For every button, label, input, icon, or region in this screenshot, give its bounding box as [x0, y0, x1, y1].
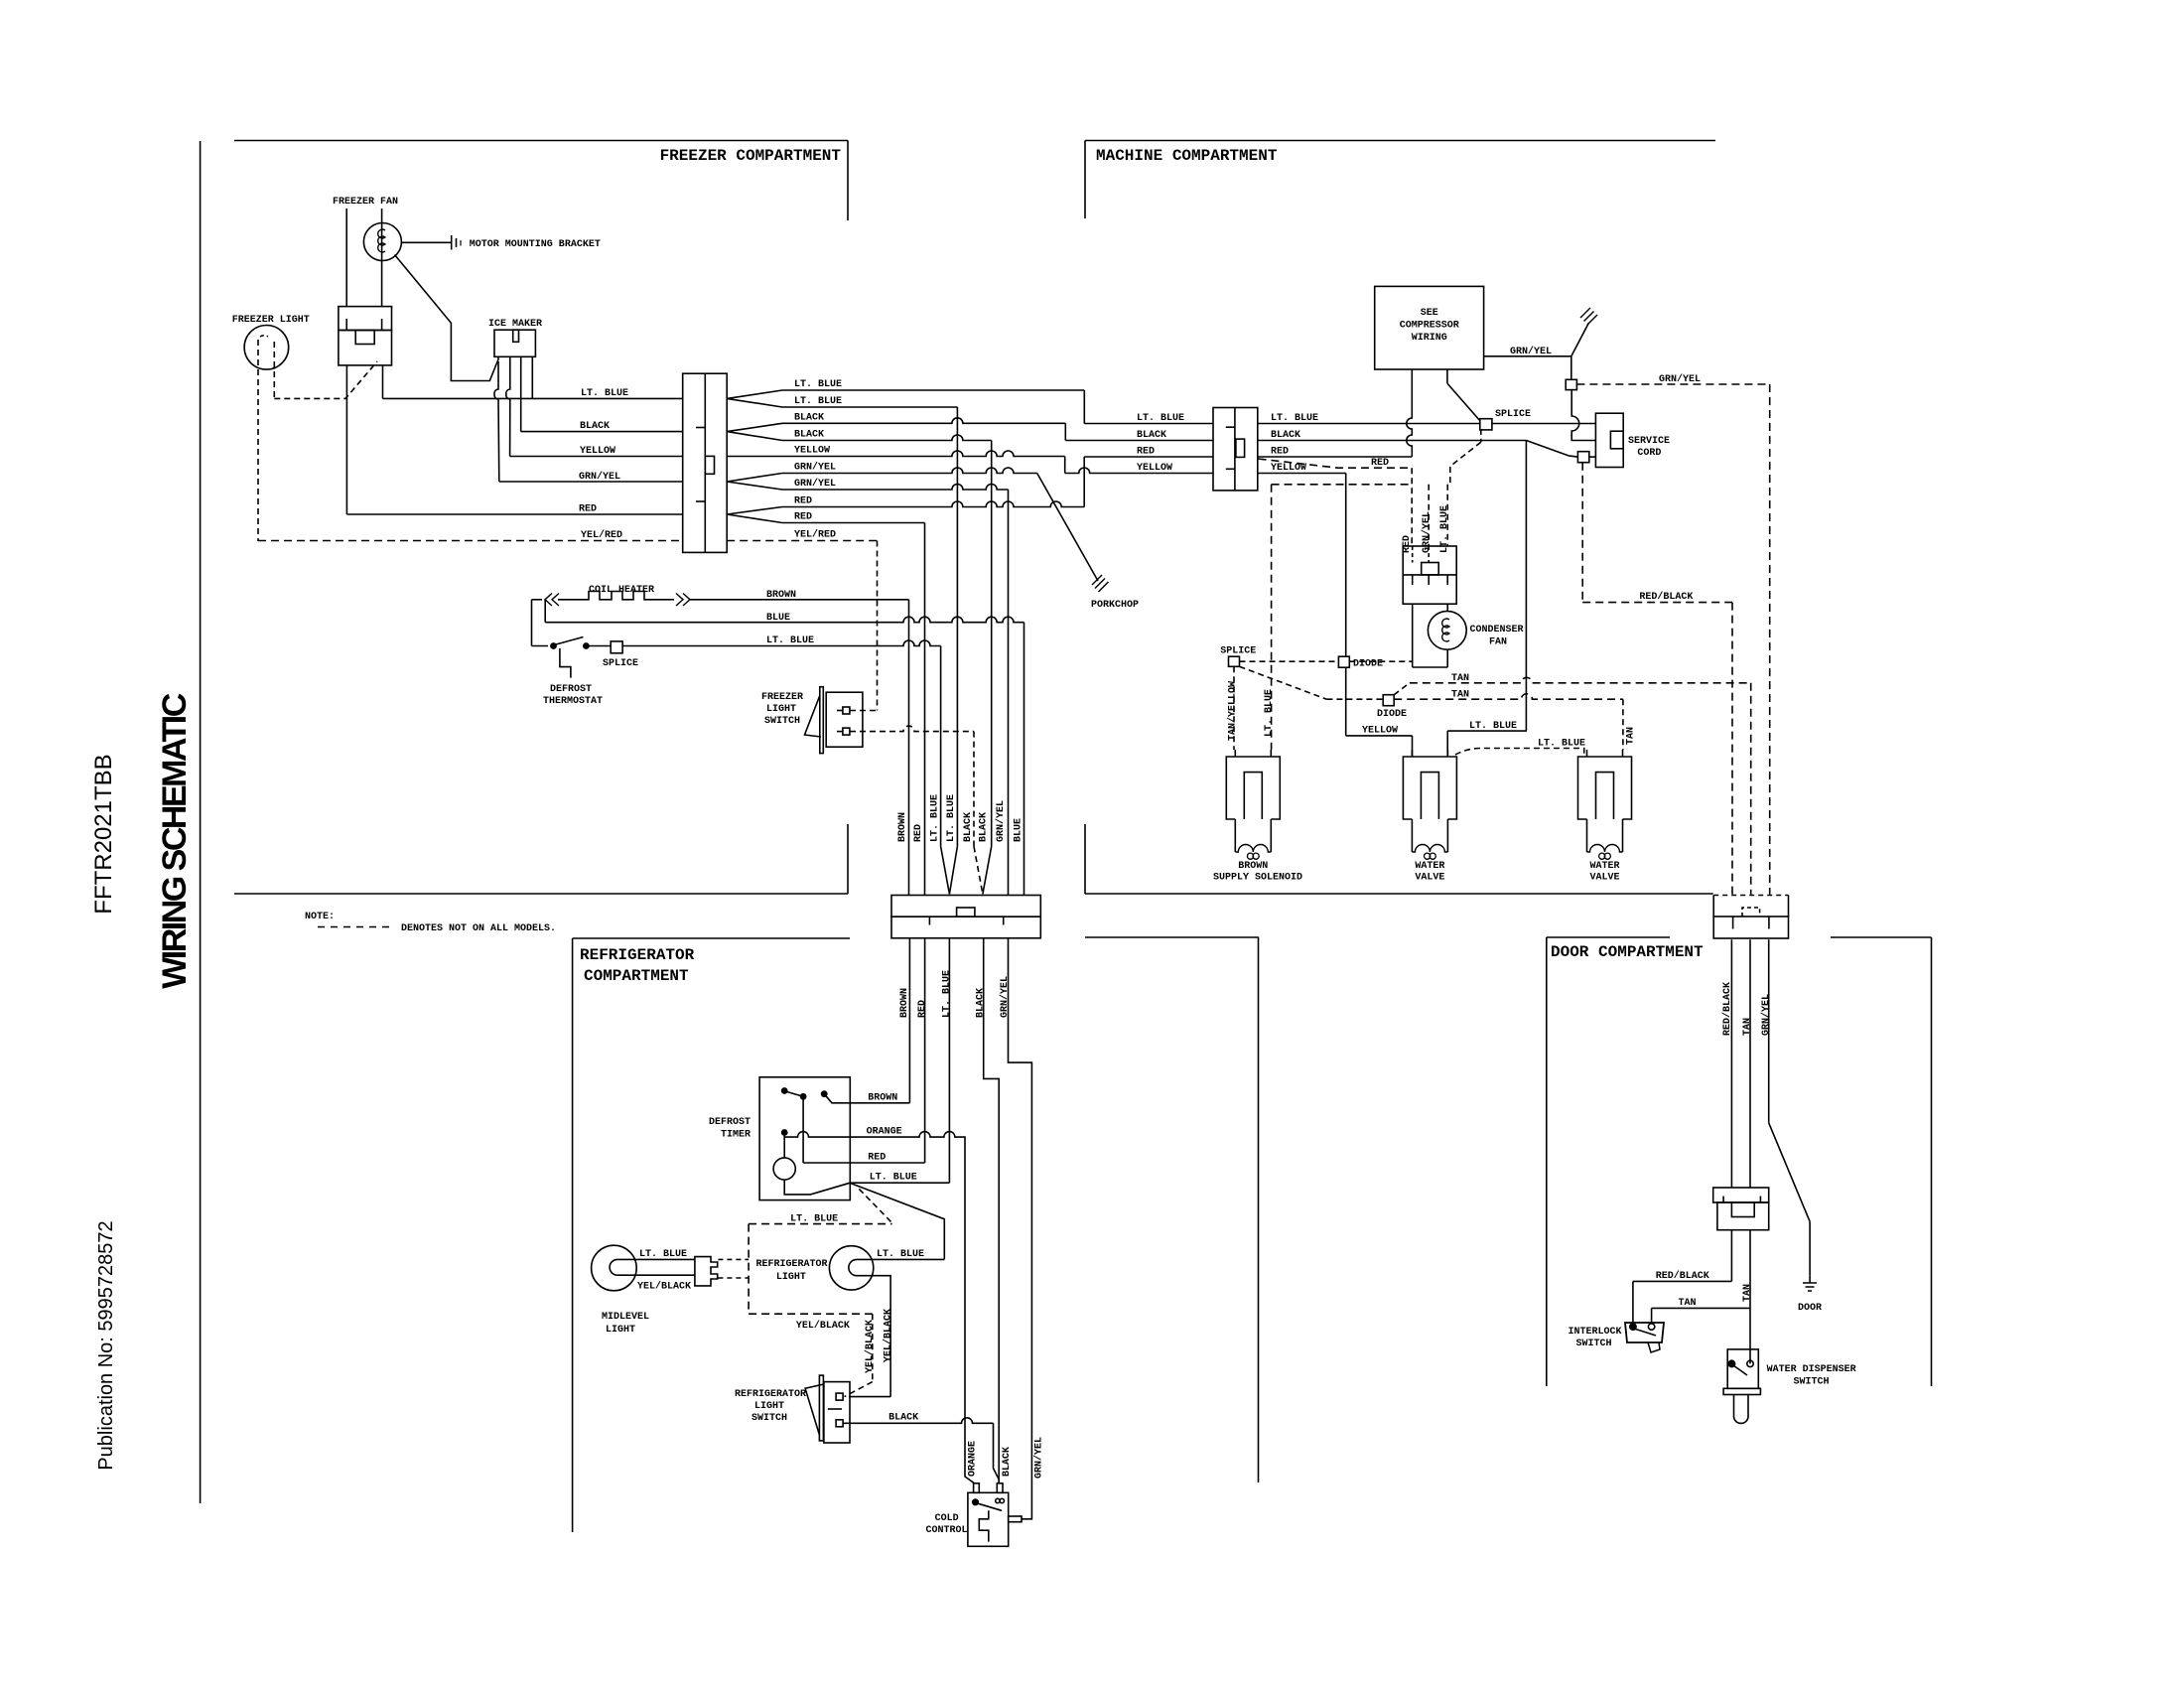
- svg-text:DEFROST: DEFROST: [550, 684, 592, 695]
- svg-text:RED: RED: [917, 1000, 928, 1018]
- svg-text:LT. BLUE: LT. BLUE: [766, 635, 814, 646]
- svg-text:FFTR2021TBB: FFTR2021TBB: [90, 754, 117, 914]
- svg-text:ORANGE: ORANGE: [968, 1441, 979, 1477]
- svg-text:LIGHT: LIGHT: [776, 1272, 806, 1283]
- svg-text:YELLOW: YELLOW: [794, 446, 830, 457]
- svg-text:INTERLOCK: INTERLOCK: [1568, 1327, 1621, 1338]
- svg-text:SWITCH: SWITCH: [751, 1413, 787, 1424]
- svg-text:RED: RED: [1271, 447, 1289, 458]
- svg-text:RED: RED: [913, 824, 924, 842]
- svg-text:LT. BLUE: LT. BLUE: [1271, 413, 1318, 424]
- svg-text:YEL/BLACK: YEL/BLACK: [864, 1320, 876, 1373]
- svg-text:RED: RED: [579, 504, 597, 515]
- svg-text:GRN/YEL: GRN/YEL: [1510, 346, 1552, 357]
- svg-text:FREEZER FAN: FREEZER FAN: [333, 197, 398, 208]
- svg-text:BLACK: BLACK: [794, 413, 824, 424]
- svg-text:YELLOW: YELLOW: [1362, 726, 1398, 737]
- svg-text:SPLICE: SPLICE: [603, 658, 638, 669]
- svg-text:COMPRESSOR: COMPRESSOR: [1400, 321, 1459, 332]
- svg-text:RED/BLACK: RED/BLACK: [1721, 982, 1733, 1036]
- svg-text:LIGHT: LIGHT: [766, 704, 796, 715]
- svg-text:BLACK: BLACK: [580, 421, 610, 432]
- svg-text:GRN/YEL: GRN/YEL: [794, 462, 836, 474]
- svg-text:LT. BLUE: LT. BLUE: [877, 1249, 924, 1260]
- svg-text:MACHINE COMPARTMENT: MACHINE COMPARTMENT: [1096, 147, 1278, 165]
- svg-text:LT. BLUE: LT. BLUE: [870, 1173, 917, 1184]
- svg-text:FREEZER: FREEZER: [761, 692, 803, 703]
- svg-text:REFRIGERATOR: REFRIGERATOR: [735, 1389, 806, 1400]
- svg-text:GRN/YEL: GRN/YEL: [1033, 1437, 1045, 1479]
- svg-text:REFRIGERATOR: REFRIGERATOR: [580, 946, 695, 964]
- svg-text:BROWN: BROWN: [1238, 861, 1268, 872]
- svg-text:SEE: SEE: [1421, 308, 1438, 319]
- svg-text:LT. BLUE: LT. BLUE: [790, 1214, 838, 1225]
- svg-text:TAN: TAN: [1742, 1284, 1753, 1302]
- svg-text:SPLICE: SPLICE: [1220, 646, 1256, 657]
- svg-text:LT. BLUE: LT. BLUE: [794, 379, 842, 390]
- svg-text:SERVICE: SERVICE: [1628, 436, 1670, 447]
- svg-text:DEFROST: DEFROST: [709, 1117, 751, 1128]
- svg-text:WIRING: WIRING: [1412, 333, 1447, 344]
- svg-text:DIODE: DIODE: [1353, 659, 1383, 670]
- svg-text:TIMER: TIMER: [721, 1130, 751, 1141]
- svg-text:FREEZER LIGHT: FREEZER LIGHT: [232, 315, 310, 326]
- svg-text:LT. BLUE: LT. BLUE: [942, 970, 953, 1018]
- svg-text:SWITCH: SWITCH: [1575, 1339, 1611, 1349]
- svg-text:WIRING SCHEMATIC: WIRING SCHEMATIC: [156, 693, 194, 989]
- svg-text:LT. BLUE: LT. BLUE: [930, 794, 941, 842]
- svg-text:TAN/YELLOW: TAN/YELLOW: [1227, 681, 1239, 741]
- svg-text:GRN/YEL: GRN/YEL: [1659, 373, 1701, 385]
- svg-text:RED: RED: [794, 496, 812, 507]
- svg-text:YELLOW: YELLOW: [580, 446, 615, 457]
- svg-text:NOTE:: NOTE:: [305, 912, 335, 922]
- svg-text:RED: RED: [1402, 535, 1413, 553]
- svg-text:VALVE: VALVE: [1589, 873, 1619, 884]
- svg-text:BLACK: BLACK: [888, 1413, 918, 1424]
- svg-text:LT. BLUE: LT. BLUE: [1538, 739, 1585, 750]
- svg-text:LT. BLUE: LT. BLUE: [946, 794, 957, 842]
- svg-text:YEL/RED: YEL/RED: [581, 529, 622, 541]
- svg-text:ORANGE: ORANGE: [867, 1127, 902, 1138]
- svg-text:Publication No: 5995728572: Publication No: 5995728572: [95, 1220, 117, 1470]
- svg-text:CONDENSER: CONDENSER: [1470, 625, 1524, 635]
- svg-text:MIDLEVEL: MIDLEVEL: [602, 1312, 649, 1323]
- svg-text:BLUE: BLUE: [1014, 818, 1024, 842]
- svg-text:GRN/YEL: GRN/YEL: [1760, 994, 1772, 1036]
- svg-text:WATER: WATER: [1589, 861, 1619, 872]
- svg-text:FREEZER COMPARTMENT: FREEZER COMPARTMENT: [660, 147, 842, 165]
- svg-text:YELLOW: YELLOW: [1137, 463, 1172, 474]
- svg-text:BROWN: BROWN: [897, 812, 908, 842]
- svg-text:TAN: TAN: [1451, 673, 1469, 684]
- svg-text:PORKCHOP: PORKCHOP: [1091, 600, 1139, 611]
- svg-text:TAN: TAN: [1626, 727, 1637, 745]
- svg-text:WATER DISPENSER: WATER DISPENSER: [1767, 1364, 1856, 1375]
- svg-text:LT. BLUE: LT. BLUE: [1439, 505, 1450, 553]
- svg-text:CONTROL: CONTROL: [925, 1525, 967, 1536]
- svg-text:SPLICE: SPLICE: [1495, 409, 1531, 420]
- svg-text:BLACK: BLACK: [794, 430, 824, 441]
- svg-text:MOTOR MOUNTING BRACKET: MOTOR MOUNTING BRACKET: [470, 239, 601, 250]
- svg-text:BLACK: BLACK: [963, 812, 974, 842]
- svg-text:DIODE: DIODE: [1377, 709, 1407, 720]
- svg-text:LT. BLUE: LT. BLUE: [581, 388, 628, 399]
- svg-text:GRN/YEL: GRN/YEL: [579, 471, 620, 483]
- svg-text:LIGHT: LIGHT: [606, 1325, 635, 1336]
- svg-text:BLUE: BLUE: [766, 613, 790, 624]
- svg-text:COLD: COLD: [935, 1513, 959, 1524]
- svg-text:LT. BLUE: LT. BLUE: [794, 396, 842, 407]
- svg-text:THERMOSTAT: THERMOSTAT: [543, 696, 603, 707]
- svg-text:DOOR COMPARTMENT: DOOR COMPARTMENT: [1551, 943, 1704, 961]
- svg-text:TAN: TAN: [1679, 1298, 1697, 1309]
- svg-text:GRN/YEL: GRN/YEL: [794, 478, 836, 490]
- svg-text:GRN/YEL: GRN/YEL: [1421, 511, 1433, 553]
- svg-text:BLACK: BLACK: [1137, 430, 1166, 441]
- svg-text:BROWN: BROWN: [766, 590, 796, 601]
- svg-text:BLACK: BLACK: [976, 988, 987, 1018]
- svg-text:RED: RED: [1371, 458, 1389, 469]
- svg-text:TAN: TAN: [1451, 690, 1469, 701]
- svg-text:GRN/YEL: GRN/YEL: [999, 976, 1011, 1018]
- svg-text:RED/BLACK: RED/BLACK: [1639, 591, 1693, 603]
- svg-text:DENOTES NOT ON ALL MODELS.: DENOTES NOT ON ALL MODELS.: [401, 923, 556, 934]
- svg-text:LT. BLUE: LT. BLUE: [1469, 721, 1517, 732]
- svg-text:SWITCH: SWITCH: [764, 716, 800, 727]
- svg-text:SWITCH: SWITCH: [1794, 1377, 1830, 1388]
- svg-text:CORD: CORD: [1637, 448, 1661, 459]
- svg-text:RED: RED: [794, 512, 812, 523]
- svg-text:COMPARTMENT: COMPARTMENT: [584, 967, 689, 985]
- svg-text:BLACK: BLACK: [1271, 430, 1300, 441]
- svg-text:WATER: WATER: [1415, 861, 1444, 872]
- svg-text:GRN/YEL: GRN/YEL: [995, 800, 1007, 842]
- svg-text:BROWN: BROWN: [868, 1093, 897, 1104]
- svg-text:YEL/BLACK: YEL/BLACK: [796, 1320, 850, 1332]
- svg-text:LT. BLUE: LT. BLUE: [1137, 413, 1184, 424]
- svg-text:YEL/BLACK: YEL/BLACK: [637, 1281, 691, 1293]
- svg-text:TAN: TAN: [1742, 1018, 1753, 1036]
- svg-text:RED/BLACK: RED/BLACK: [1656, 1270, 1709, 1282]
- svg-text:YEL/RED: YEL/RED: [794, 529, 836, 541]
- svg-text:ICE MAKER: ICE MAKER: [488, 319, 542, 330]
- svg-text:DOOR: DOOR: [1798, 1303, 1822, 1314]
- svg-text:REFRIGERATOR: REFRIGERATOR: [755, 1259, 827, 1270]
- svg-text:FAN: FAN: [1489, 637, 1507, 648]
- svg-text:LIGHT: LIGHT: [754, 1401, 784, 1412]
- svg-text:BROWN: BROWN: [899, 988, 910, 1018]
- svg-text:YEL/BLACK: YEL/BLACK: [883, 1309, 894, 1362]
- svg-text:BLACK: BLACK: [979, 812, 990, 842]
- svg-text:LT. BLUE: LT. BLUE: [639, 1249, 687, 1260]
- svg-text:RED: RED: [868, 1153, 886, 1164]
- svg-text:RED: RED: [1137, 447, 1155, 458]
- svg-text:BLACK: BLACK: [1002, 1447, 1013, 1477]
- svg-text:LT. BLUE: LT. BLUE: [1264, 689, 1275, 737]
- svg-text:SUPPLY SOLENOID: SUPPLY SOLENOID: [1213, 873, 1302, 884]
- svg-text:VALVE: VALVE: [1415, 873, 1444, 884]
